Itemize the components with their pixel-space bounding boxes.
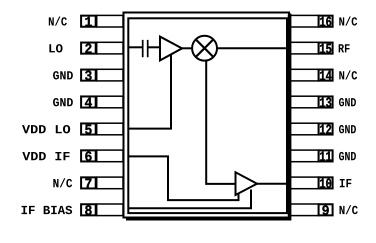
pin 3 number box: [81, 70, 96, 81]
pin 16 label N/C: [339, 17, 357, 26]
pin number 9: [322, 205, 328, 215]
pin number 14: [320, 71, 331, 80]
mixer U2 circle: [192, 36, 217, 61]
pin 13 number box: [319, 96, 333, 107]
pin 10 lead: [289, 177, 319, 189]
pin 1 lead: [97, 15, 123, 27]
pin 8 label IF BIAS: [22, 206, 73, 214]
pin 1 number box: [81, 16, 96, 27]
pin 6 lead: [97, 150, 123, 162]
pin 2 lead: [97, 42, 123, 54]
pin 16 lead: [289, 15, 319, 27]
wire capacitor to LO buffer: [149, 46, 161, 48]
wire LO buffer to mixer: [182, 47, 193, 49]
pin number 7: [85, 179, 91, 188]
wire pin 8 IF BIAS to IF amplifier: [128, 190, 251, 209]
pin 9 lead: [289, 204, 319, 216]
pin 12 number box: [319, 123, 333, 134]
mixer U2 X: [195, 39, 213, 57]
LO buffer amplifier A1: [160, 37, 182, 61]
pin 2 label LO: [49, 44, 62, 52]
pin 4 label GND: [53, 98, 73, 106]
pin 2 number box: [81, 43, 96, 54]
IC package U1 inner border: [128, 18, 287, 213]
pin number 13: [320, 97, 331, 107]
pin 6 label VDD IF: [22, 152, 69, 160]
pin number 6: [85, 151, 91, 161]
pin 8 number box: [81, 204, 96, 215]
pin 7 label N/C: [53, 178, 72, 187]
pin 15 number box: [319, 43, 333, 54]
pin 3 label GND: [53, 71, 73, 79]
pin number 15: [320, 44, 331, 54]
pin 7 lead: [97, 177, 123, 189]
pin 11 number box: [319, 150, 333, 161]
wire mixer output down to IF amplifier input: [206, 61, 234, 184]
pin 5 label VDD LO: [22, 125, 70, 133]
pin number 4: [85, 98, 92, 107]
pin 11 label GND: [339, 152, 356, 160]
wire pin 2 LO input: [128, 46, 142, 48]
IF amplifier A2: [236, 172, 258, 195]
pin 5 number box: [81, 123, 96, 134]
pin 15 lead: [289, 42, 319, 54]
pin number 12: [320, 124, 331, 134]
pin 9 label N/C: [340, 205, 358, 214]
wire IF amplifier output to pin 10 IF: [257, 183, 289, 185]
pin 5 lead: [97, 123, 123, 135]
pin 12 label GND: [339, 125, 356, 133]
pin number 5: [85, 125, 91, 135]
pin 6 number box: [81, 150, 96, 161]
pin 15 label RF: [339, 44, 350, 52]
pin number 2: [85, 44, 91, 54]
pin number 3: [85, 71, 92, 81]
pin 16 number box: [319, 16, 333, 27]
pin 3 lead: [97, 69, 123, 81]
pin number 11: [320, 152, 331, 161]
pin 12 lead: [289, 123, 319, 135]
wire pin 6 VDD IF to IF amplifier: [128, 156, 238, 200]
pin number 16: [320, 17, 331, 27]
pin 10 label IF: [340, 179, 352, 187]
pin number 8: [85, 205, 91, 215]
wire mixer to pin 15 RF: [217, 47, 286, 49]
pin 13 label GND: [339, 98, 356, 106]
pin 10 number box: [319, 177, 333, 188]
pin 13 lead: [289, 96, 319, 108]
pin 14 label N/C: [339, 70, 357, 79]
pin 11 lead: [289, 150, 319, 162]
pin number 10: [320, 178, 331, 188]
pin number 1: [85, 17, 91, 26]
pin 14 lead: [289, 69, 319, 81]
pin 7 number box: [81, 177, 96, 188]
IC package U1 outer border: [124, 13, 290, 218]
pin 8 lead: [97, 204, 123, 216]
pin 4 lead: [97, 96, 123, 108]
IC package U1 shadow bottom-right: [126, 14, 290, 220]
wire pin 5 VDD LO to LO buffer: [128, 55, 171, 129]
pin 9 number box: [319, 204, 333, 215]
pin 1 label N/C: [49, 17, 67, 26]
pin 14 number box: [319, 70, 333, 81]
capacitor C1 (LO coupling): [143, 40, 148, 57]
pin 4 number box: [81, 96, 96, 107]
